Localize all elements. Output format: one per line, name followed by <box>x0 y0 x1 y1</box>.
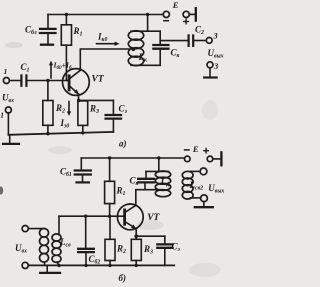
transistor VT (circuit a) <box>63 69 90 96</box>
wire top supply rail (circuit a) <box>48 14 163 16</box>
svg-text:3: 3 <box>213 62 218 71</box>
current arrow Iк0 <box>97 42 120 46</box>
wire rail to tank <box>147 15 149 32</box>
svg-text:б): б) <box>119 273 127 283</box>
terminal input top (circuit b) <box>22 226 28 232</box>
capacitor Cб2 <box>78 216 94 265</box>
wire top supply rail (circuit b) <box>81 157 184 159</box>
wire tank top (circuit a) <box>131 30 160 32</box>
terminal 1 top <box>3 78 9 84</box>
terminal 1 bottom <box>5 107 11 113</box>
current arrow Iэ0 <box>67 102 71 117</box>
wire collector up and right (circuit a) <box>80 49 133 70</box>
ground symbol output (circuit b) <box>195 202 213 208</box>
capacitor C2 <box>189 35 194 46</box>
resistor R2 <box>43 81 53 134</box>
wire tank to C2 <box>160 40 188 42</box>
node junction Lсв bottom <box>57 264 60 267</box>
ground tick bottom-left <box>3 135 19 144</box>
wire base (circuit a) <box>26 80 68 82</box>
node junction R3b bottom <box>135 264 138 267</box>
svg-text:VT: VT <box>147 213 160 223</box>
capacitor Cэ (circuit b) <box>136 236 172 265</box>
wire tank bottom (circuit a) <box>131 64 160 66</box>
wire emitter to Cэ <box>79 99 114 101</box>
wire input to C1 <box>9 80 20 82</box>
inductor Lсв2 output <box>182 171 200 199</box>
ground symbol (circuit b) <box>40 265 60 273</box>
wire tank bottom (circuit b) <box>137 189 163 191</box>
current arrow Iб0 <box>49 61 53 78</box>
terminal 3 bottom <box>204 62 216 78</box>
node junction R2 bottom <box>46 132 49 135</box>
svg-text:1: 1 <box>0 111 4 120</box>
node junction R3 bottom <box>81 131 84 134</box>
capacitor Cб1 <box>75 158 91 182</box>
inductor Lсв secondary <box>52 216 61 265</box>
inductor Lк (circuit a) <box>128 31 143 66</box>
paper background <box>0 0 227 287</box>
wire emitter down (circuit b) <box>135 229 137 237</box>
wire terminal to bottom rail <box>7 113 9 135</box>
node junction tank top <box>146 13 149 16</box>
wire bottom rail (circuit a) <box>8 132 113 135</box>
resistor R2 (circuit b) <box>105 216 115 265</box>
node junction tank b top <box>157 156 160 159</box>
capacitor Cк (circuit b) <box>138 171 154 189</box>
scan smudges <box>0 42 221 277</box>
node junction base-Cб2 <box>84 215 87 218</box>
terminal input bottom (circuit b) <box>22 262 28 268</box>
capacitor Cэ (circuit a) <box>106 100 121 132</box>
terminal E plus (circuit a) <box>183 8 196 24</box>
inductor Lк (circuit b) <box>155 171 170 197</box>
terminal E minus (circuit b) <box>185 150 191 162</box>
node junction R1 top <box>65 13 68 16</box>
svg-text:1: 1 <box>4 67 8 76</box>
terminal output bottom (circuit b) <box>201 195 208 202</box>
node junction emitter b <box>134 234 138 238</box>
wire emitter down (circuit a) <box>78 94 80 100</box>
node junction emitter <box>77 99 81 103</box>
node junction R2b bottom <box>108 264 111 267</box>
wire rail to tank b <box>158 158 160 171</box>
svg-text:VT: VT <box>92 75 105 85</box>
resistor R3 <box>78 101 88 133</box>
wire C2 to output <box>193 40 206 42</box>
svg-text:E: E <box>192 144 199 154</box>
svg-text:3: 3 <box>213 32 218 41</box>
node junction R1b top <box>108 156 111 159</box>
wire bottom rail (circuit b) <box>28 264 174 266</box>
node junction Cб2 bottom <box>84 264 87 267</box>
svg-text:а): а) <box>119 139 127 149</box>
capacitor C1 <box>21 75 26 85</box>
capacitor Cк (circuit a) <box>153 31 168 65</box>
transistor VT (circuit b) <box>117 204 143 230</box>
svg-text:E: E <box>172 0 179 10</box>
wire base (circuit b) <box>59 215 125 217</box>
wire tank top (circuit b) <box>146 170 169 172</box>
resistor R3 (circuit b) <box>131 236 141 265</box>
terminal output top (circuit b) <box>200 168 207 175</box>
terminal E plus (circuit b) <box>204 149 222 166</box>
terminal E minus (circuit a) <box>163 11 169 20</box>
node junction coil tap <box>132 47 136 51</box>
wire collector up (circuit b) <box>135 190 137 206</box>
wire input top to primary <box>28 228 44 230</box>
resistor R1 (circuit b) <box>105 158 115 216</box>
terminal 3 top <box>206 38 212 44</box>
capacitor Cбл <box>40 15 56 45</box>
inductor input primary <box>40 229 49 266</box>
node junction base-R1b <box>108 215 111 218</box>
node junction base-R2 <box>46 79 49 82</box>
resistor R1 <box>61 15 71 81</box>
